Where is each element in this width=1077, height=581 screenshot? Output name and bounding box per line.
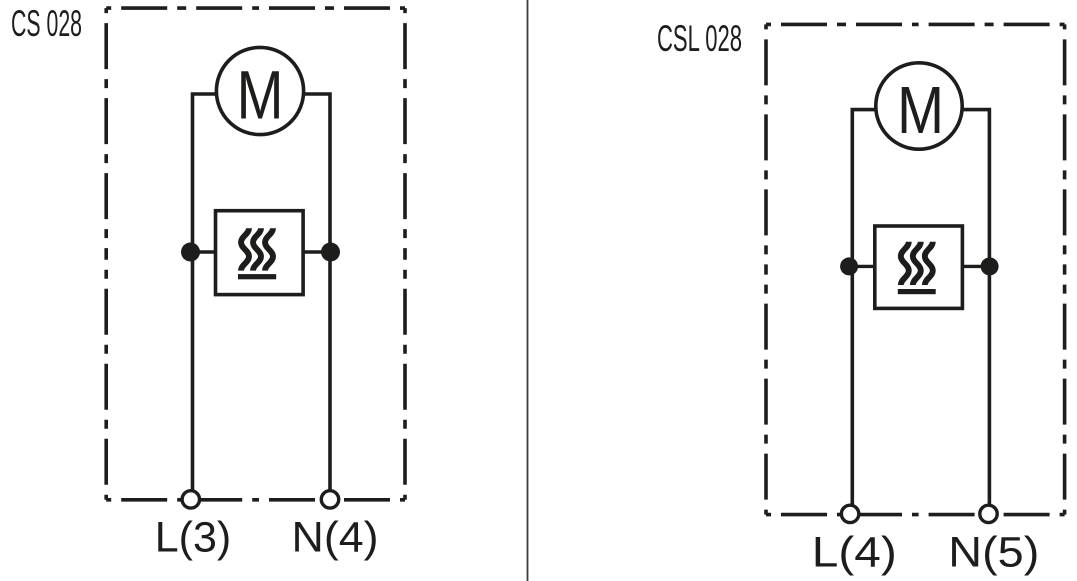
svg-text:L(3): L(3): [155, 514, 231, 562]
heater element (CS 028): [216, 211, 304, 295]
svg-text:N(4): N(4): [292, 514, 379, 562]
junction node right (CSL 028): [981, 257, 999, 275]
junction node left (CS 028): [181, 243, 200, 262]
heater element (CSL 028): [875, 226, 963, 308]
svg-text:M: M: [897, 73, 944, 148]
terminal N(4): [321, 491, 338, 508]
wire stub heater-to-dot right (CSL 028): [961, 265, 990, 268]
wire N-side (CSL 028): [962, 108, 991, 505]
motor M (CS 028): [216, 47, 303, 134]
wire stub dot-to-heater left (CSL 028): [849, 265, 876, 268]
enclosure boundary CSL 028 (dash-dot box): [766, 24, 1065, 514]
junction node right (CS 028): [321, 243, 340, 262]
terminal N(5): [980, 505, 997, 522]
svg-text:CS 028: CS 028: [11, 2, 82, 44]
svg-text:M: M: [237, 57, 284, 134]
wire stub heater-to-dot right (CS 028): [303, 250, 331, 253]
wire N-side (CS 028): [302, 92, 332, 491]
svg-text:CSL 028: CSL 028: [657, 17, 742, 59]
motor M (CSL 028): [876, 63, 962, 149]
junction node left (CSL 028): [840, 257, 858, 275]
wire L-side (CSL 028): [851, 108, 877, 505]
svg-text:L(4): L(4): [812, 529, 897, 577]
terminal L(3): [182, 491, 199, 508]
wire L-side (CS 028): [191, 92, 217, 491]
enclosure boundary CS 028 (dash-dot box): [106, 8, 405, 500]
terminal L(4): [841, 505, 858, 522]
svg-text:N(5): N(5): [948, 529, 1039, 577]
wire stub dot-to-heater left (CS 028): [191, 250, 217, 253]
divider rule between the two schematics: [527, 0, 529, 581]
